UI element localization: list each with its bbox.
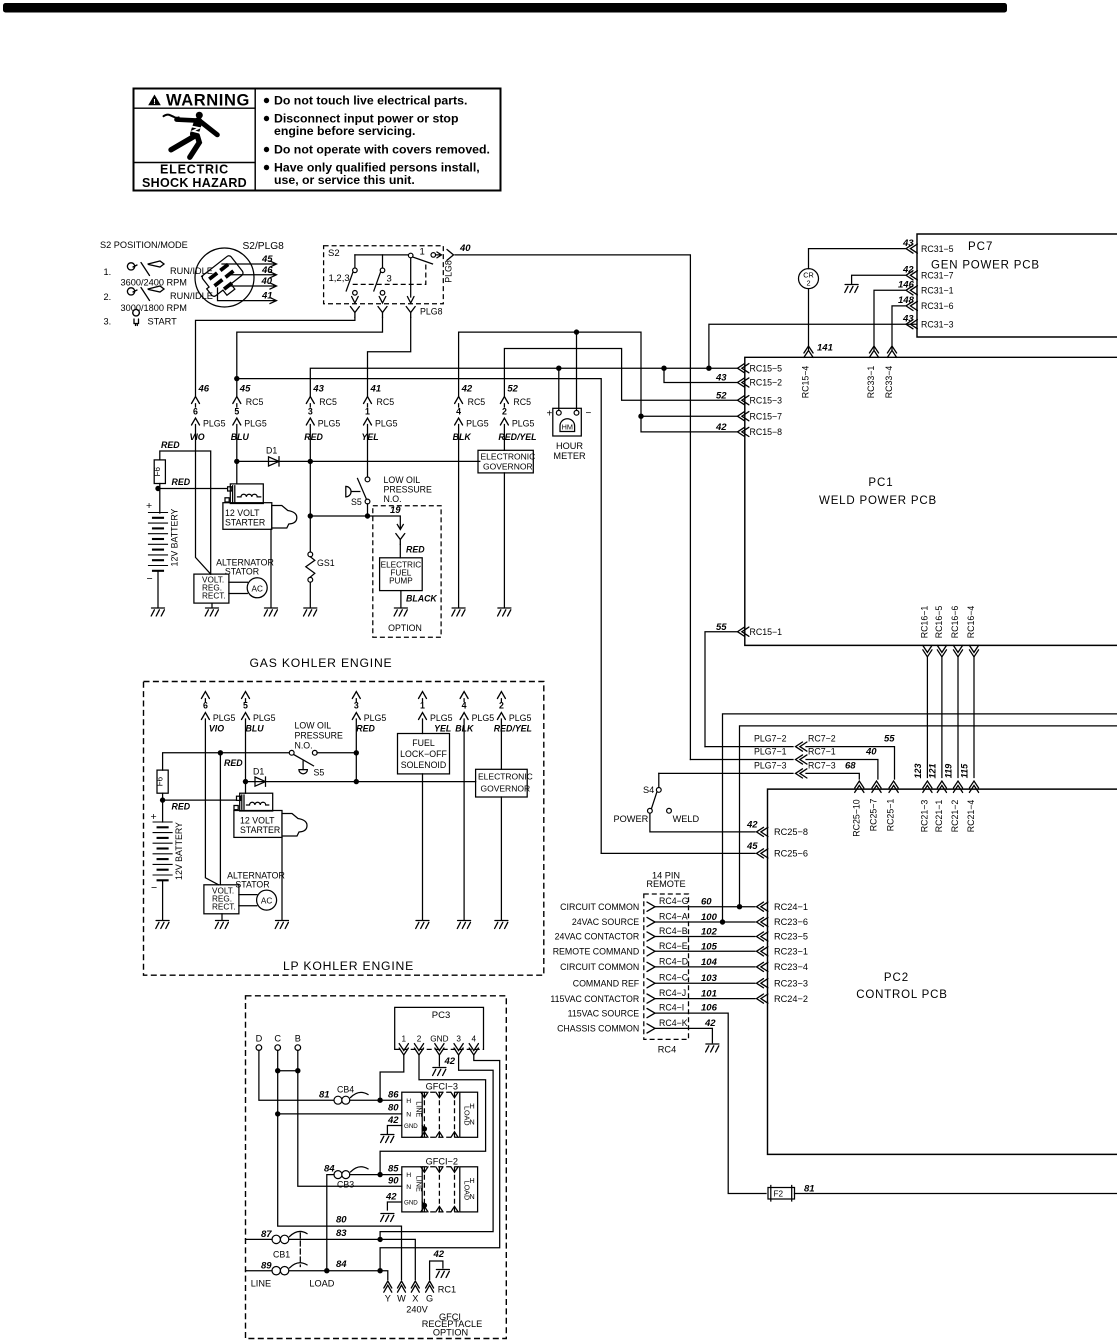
svg-text:S2/PLG8: S2/PLG8 bbox=[243, 241, 285, 252]
svg-text:PLG5: PLG5 bbox=[375, 419, 398, 429]
svg-text:RC24−2: RC24−2 bbox=[774, 994, 808, 1004]
svg-text:AC: AC bbox=[252, 584, 263, 593]
svg-text:LOCK−OFF: LOCK−OFF bbox=[400, 749, 447, 759]
pole 3 riser bbox=[382, 255, 384, 268]
connector RC31-3 bbox=[906, 320, 917, 329]
svg-text:HM: HM bbox=[562, 423, 573, 432]
ground RC31-7 bbox=[845, 285, 858, 293]
svg-text:PLG5: PLG5 bbox=[318, 419, 341, 429]
svg-text:RC16−6: RC16−6 bbox=[950, 606, 960, 639]
svg-text:−: − bbox=[147, 573, 153, 585]
volt reg rect (lp) bbox=[204, 885, 239, 914]
svg-text:GND: GND bbox=[430, 1035, 448, 1044]
svg-text:LINE: LINE bbox=[251, 1279, 271, 1289]
terminal Y bbox=[384, 1281, 392, 1292]
wire RC31-6 to RC33-4 bbox=[892, 306, 905, 350]
S2 top bus bbox=[355, 254, 409, 256]
svg-text:2: 2 bbox=[417, 1035, 422, 1044]
pin RC4−B row bbox=[647, 932, 655, 941]
gas BLK column to ground bbox=[458, 404, 460, 607]
gas kohler engine section bbox=[146, 384, 537, 671]
svg-text:PLG5: PLG5 bbox=[244, 419, 267, 429]
wire 83 CB1 to terminal X bbox=[289, 1239, 415, 1279]
svg-text:ELECTRIC: ELECTRIC bbox=[160, 163, 229, 177]
svg-text:RC25−10: RC25−10 bbox=[851, 799, 861, 837]
svg-text:RC16−1: RC16−1 bbox=[919, 606, 929, 639]
lp column 1 (YEL) PLG5 bbox=[419, 692, 427, 699]
svg-text:4: 4 bbox=[456, 407, 461, 417]
circuit breaker CB3 bbox=[334, 1167, 368, 1179]
svg-text:D1: D1 bbox=[253, 767, 264, 777]
svg-text:RC25−8: RC25−8 bbox=[774, 827, 808, 837]
lp column 3 (RED) PLG5 bbox=[352, 692, 360, 699]
svg-text:60: 60 bbox=[701, 897, 712, 908]
svg-text:42: 42 bbox=[387, 1115, 399, 1126]
svg-text:3600/2400 RPM: 3600/2400 RPM bbox=[121, 278, 187, 288]
fuel pump wire 19 bbox=[310, 516, 403, 530]
svg-text:ELECTRONIC: ELECTRONIC bbox=[478, 772, 533, 782]
fuel lock-off solenoid bbox=[398, 734, 450, 774]
PC3 box bbox=[395, 1007, 484, 1049]
svg-text:PC1: PC1 bbox=[868, 477, 893, 489]
pin RC4−D row bbox=[647, 962, 655, 971]
switch S5 low oil pressure (gas) bbox=[346, 486, 351, 497]
svg-text:RED: RED bbox=[224, 758, 243, 768]
lp volt reg to ground bbox=[221, 914, 223, 920]
GFCI receptacle option dashed box bbox=[246, 996, 507, 1339]
svg-text:STATOR: STATOR bbox=[225, 567, 259, 577]
hour meter right riser bbox=[576, 332, 578, 410]
lp YEL column bbox=[422, 699, 424, 920]
lp volt reg to AC links bbox=[239, 895, 257, 906]
svg-text:CIRCUIT COMMON: CIRCUIT COMMON bbox=[560, 902, 639, 912]
svg-text:87: 87 bbox=[261, 1229, 272, 1240]
connector RC15-1 bbox=[738, 627, 749, 636]
svg-text:+: + bbox=[547, 409, 553, 420]
svg-text:81: 81 bbox=[319, 1090, 330, 1101]
svg-text:RC5: RC5 bbox=[377, 397, 395, 407]
svg-text:42: 42 bbox=[385, 1191, 397, 1202]
connector RC25-7 bbox=[872, 781, 881, 792]
svg-text:PLG5: PLG5 bbox=[253, 713, 276, 723]
svg-text:RC21−2: RC21−2 bbox=[950, 800, 960, 833]
svg-text:BLACK: BLACK bbox=[406, 594, 437, 604]
svg-text:RC23−4: RC23−4 bbox=[774, 962, 808, 972]
PLG7-1 / RC7-1 row (wire 40) bbox=[690, 760, 878, 780]
battery (lp) bbox=[153, 822, 172, 880]
svg-text:VIO: VIO bbox=[190, 432, 205, 442]
ground lp BLK column bbox=[457, 921, 470, 929]
svg-text:43: 43 bbox=[902, 238, 914, 249]
svg-text:RED: RED bbox=[161, 440, 180, 450]
svg-text:RC31−6: RC31−6 bbox=[921, 301, 954, 311]
svg-text:START: START bbox=[148, 317, 178, 327]
svg-text:SOLENOID: SOLENOID bbox=[401, 760, 446, 770]
connector RC24−2 bbox=[757, 994, 768, 1003]
svg-text:RECT.: RECT. bbox=[202, 592, 226, 601]
svg-text:GND: GND bbox=[404, 1199, 418, 1206]
svg-text:3: 3 bbox=[387, 274, 392, 285]
lp column 6 (VIO) PLG5 bbox=[201, 692, 209, 699]
svg-text:84: 84 bbox=[324, 1164, 335, 1175]
svg-text:2.: 2. bbox=[104, 292, 112, 302]
ground lp RED/YEL column bbox=[495, 921, 508, 929]
PLG7-2 / RC7-2 row (wire 55) bbox=[705, 747, 895, 779]
svg-text:LOAD: LOAD bbox=[309, 1279, 334, 1289]
lp BLU column bbox=[245, 699, 247, 793]
svg-text:RC4−I: RC4−I bbox=[659, 1003, 684, 1013]
svg-text:3: 3 bbox=[308, 407, 313, 417]
volt reg to ground bbox=[211, 603, 213, 607]
connector pin stub arrows 45/46/40/41 bbox=[218, 261, 277, 304]
hour meter left riser bbox=[558, 368, 560, 410]
gas BLU column to starter solenoid bbox=[236, 404, 238, 484]
svg-text:42: 42 bbox=[461, 384, 473, 395]
svg-text:PLG5: PLG5 bbox=[509, 713, 532, 723]
wire 45: gas col5 branch to RC25-6 bbox=[237, 379, 601, 854]
svg-text:LINE: LINE bbox=[415, 1176, 424, 1192]
svg-text:RC21−3: RC21−3 bbox=[919, 800, 929, 833]
svg-text:N.O.: N.O. bbox=[384, 494, 402, 504]
wire D to CB4 bbox=[259, 1050, 333, 1100]
svg-text:PLG5: PLG5 bbox=[364, 713, 387, 723]
svg-text:RC24−1: RC24−1 bbox=[774, 902, 808, 912]
svg-text:H: H bbox=[406, 1172, 411, 1179]
ground battery gas bbox=[151, 608, 164, 616]
svg-text:C: C bbox=[274, 1034, 281, 1044]
svg-text:W: W bbox=[397, 1294, 406, 1304]
svg-text:115VAC CONTACTOR: 115VAC CONTACTOR bbox=[550, 994, 639, 1004]
wire F6 to volt reg rect bbox=[160, 451, 211, 574]
pin RC4−I row bbox=[647, 1009, 655, 1018]
svg-text:40: 40 bbox=[261, 276, 273, 287]
wire 43: gas col3 to RC15-5 bbox=[310, 368, 737, 396]
ground RC1 bbox=[436, 1270, 449, 1278]
ground gas RED/YEL column bbox=[498, 608, 511, 616]
svg-text:Do not touch live electrical p: Do not touch live electrical parts. bbox=[274, 94, 467, 108]
wire RC31-3 riser bbox=[709, 324, 917, 368]
svg-text:RC7−2: RC7−2 bbox=[808, 734, 836, 744]
wire 42 S4 to RC25-8 bbox=[650, 813, 755, 832]
svg-text:GND: GND bbox=[404, 1123, 418, 1130]
svg-text:RC5: RC5 bbox=[513, 397, 531, 407]
pin RC4−E row bbox=[647, 947, 655, 956]
svg-text:RC15−4: RC15−4 bbox=[801, 366, 811, 399]
wire RC15-7 branch bbox=[641, 415, 738, 417]
svg-text:46: 46 bbox=[261, 265, 273, 276]
wire RC31-7 to ground bbox=[852, 275, 905, 283]
svg-text:S2 POSITION/MODE: S2 POSITION/MODE bbox=[100, 240, 188, 250]
wire CB3 to 84 line bbox=[327, 1175, 334, 1271]
svg-text:PLG7−3: PLG7−3 bbox=[754, 760, 787, 770]
svg-text:106: 106 bbox=[701, 1003, 718, 1014]
svg-text:CB4: CB4 bbox=[337, 1085, 354, 1095]
svg-text:RC4−E: RC4−E bbox=[659, 941, 688, 951]
lp D1 wire to governor bbox=[246, 781, 476, 783]
svg-text:PC2: PC2 bbox=[884, 972, 909, 984]
gas RED/YEL column through governor bbox=[503, 404, 505, 607]
wire PC3 pin4 to 84 line bbox=[380, 1055, 500, 1271]
svg-text:N: N bbox=[406, 1184, 411, 1191]
connector RC15-5 bbox=[738, 364, 749, 373]
starter to ground bbox=[270, 529, 272, 607]
wire 84 CB1 to terminal Y bbox=[289, 1271, 388, 1280]
connector RC15-7 bbox=[738, 412, 749, 421]
svg-text:RED: RED bbox=[406, 545, 425, 555]
svg-text:42: 42 bbox=[746, 820, 758, 831]
S5 to fuel pump wire bbox=[367, 504, 369, 516]
svg-text:89: 89 bbox=[261, 1260, 272, 1271]
svg-text:GAS KOHLER ENGINE: GAS KOHLER ENGINE bbox=[250, 656, 393, 670]
svg-text:WELD POWER PCB: WELD POWER PCB bbox=[819, 495, 937, 507]
svg-text:2: 2 bbox=[502, 407, 507, 417]
svg-text:LOW OIL: LOW OIL bbox=[295, 721, 332, 731]
run/idle icons row 2 bbox=[127, 286, 164, 301]
svg-text:45: 45 bbox=[261, 254, 273, 265]
svg-text:PLG5: PLG5 bbox=[512, 419, 535, 429]
svg-text:RED: RED bbox=[356, 724, 375, 734]
hour meter HM bbox=[547, 408, 592, 461]
svg-text:RUN/IDLE: RUN/IDLE bbox=[170, 291, 213, 301]
connector RC23−4 bbox=[757, 962, 768, 971]
svg-text:42: 42 bbox=[715, 422, 727, 433]
lp wire S5 to RED column bbox=[317, 752, 356, 754]
svg-text:119: 119 bbox=[944, 764, 954, 778]
svg-text:RC1: RC1 bbox=[438, 1285, 456, 1295]
svg-text:80: 80 bbox=[388, 1103, 399, 1114]
svg-text:12 VOLT: 12 VOLT bbox=[225, 508, 260, 518]
svg-text:41: 41 bbox=[261, 290, 273, 301]
connector RC25-6 bbox=[757, 849, 768, 858]
ground RC4-K bbox=[706, 1044, 719, 1052]
svg-text:1: 1 bbox=[402, 1035, 407, 1044]
svg-text:N.O.: N.O. bbox=[295, 741, 313, 751]
svg-text:104: 104 bbox=[701, 957, 718, 968]
svg-text:3000/1800 RPM: 3000/1800 RPM bbox=[121, 303, 187, 313]
gas RED column bbox=[309, 404, 311, 552]
svg-text:103: 103 bbox=[701, 973, 718, 984]
svg-text:RC15−2: RC15−2 bbox=[750, 378, 783, 388]
svg-text:STATOR: STATOR bbox=[235, 880, 269, 890]
connector RC31-6 bbox=[906, 301, 917, 310]
svg-text:RC4−K: RC4−K bbox=[659, 1018, 688, 1028]
connector RC15-8 bbox=[738, 427, 749, 436]
S4 lever bbox=[652, 792, 657, 809]
gas option dashed box bbox=[373, 506, 441, 638]
svg-text:H: H bbox=[406, 1098, 411, 1105]
svg-text:RC5: RC5 bbox=[468, 397, 486, 407]
svg-text:146: 146 bbox=[898, 280, 915, 291]
svg-text:RC7−1: RC7−1 bbox=[808, 747, 836, 757]
svg-text:REMOTE: REMOTE bbox=[646, 879, 685, 889]
wire PLG8-3 to gas col 1 bbox=[368, 318, 411, 397]
ground GS1 bbox=[304, 608, 317, 616]
svg-text:COMMAND REF: COMMAND REF bbox=[573, 978, 640, 988]
svg-text:43: 43 bbox=[312, 384, 324, 395]
wire RC4-A riser to right edge bbox=[723, 714, 1117, 922]
top black title bar bbox=[3, 3, 1007, 13]
fuse F6 (lp) bbox=[157, 770, 168, 793]
keyed plug outline bbox=[199, 255, 249, 303]
connector RC31-1 bbox=[906, 286, 917, 295]
ground starter lp bbox=[275, 921, 288, 929]
12 volt starter (lp) bbox=[234, 793, 307, 837]
terminal G bbox=[426, 1281, 434, 1292]
svg-text:1: 1 bbox=[420, 247, 425, 258]
svg-text:42: 42 bbox=[704, 1018, 716, 1029]
gas D1 wire to governor bbox=[237, 460, 480, 462]
svg-text:D1: D1 bbox=[266, 446, 277, 456]
connector RC31-5 bbox=[906, 244, 917, 253]
svg-text:RC31−5: RC31−5 bbox=[921, 244, 954, 254]
svg-text:WARNING: WARNING bbox=[166, 92, 250, 110]
svg-text:BLK: BLK bbox=[453, 432, 472, 442]
svg-text:RED: RED bbox=[172, 802, 191, 812]
svg-text:RC16−4: RC16−4 bbox=[966, 606, 976, 639]
svg-text:RC4−G: RC4−G bbox=[659, 896, 689, 906]
svg-text:55: 55 bbox=[884, 734, 895, 745]
wire 40: S2 to PLG7-1 bbox=[455, 255, 690, 760]
GFCI−3 bbox=[387, 1082, 477, 1138]
svg-text:45: 45 bbox=[239, 384, 251, 395]
svg-text:PLG7−2: PLG7−2 bbox=[754, 734, 787, 744]
svg-text:40: 40 bbox=[865, 747, 877, 758]
circuit breaker CB4 bbox=[334, 1092, 368, 1104]
svg-text:RC33−1: RC33−1 bbox=[866, 366, 876, 399]
connector RC33-1 bbox=[869, 346, 878, 357]
svg-text:CB1: CB1 bbox=[273, 1250, 290, 1260]
svg-text:RC31−3: RC31−3 bbox=[921, 319, 954, 329]
gas VIO column to volt reg bbox=[196, 404, 211, 574]
svg-text:PLG5: PLG5 bbox=[430, 713, 453, 723]
svg-text:68: 68 bbox=[845, 760, 856, 771]
PC1 weld power pcb box bbox=[715, 343, 1117, 646]
fuel pump to ground bbox=[400, 591, 402, 608]
PC7 gen power pcb box bbox=[799, 234, 1117, 350]
svg-text:123: 123 bbox=[913, 763, 923, 778]
svg-text:PUMP: PUMP bbox=[389, 577, 413, 586]
svg-text:RC15−1: RC15−1 bbox=[750, 627, 783, 637]
pin RC4−J row bbox=[647, 994, 655, 1003]
start key icon bbox=[133, 309, 140, 325]
svg-text:12 VOLT: 12 VOLT bbox=[240, 816, 275, 826]
svg-text:LP KOHLER ENGINE: LP KOHLER ENGINE bbox=[283, 959, 414, 973]
ground lp YEL column bbox=[416, 921, 429, 929]
svg-text:RC23−3: RC23−3 bbox=[774, 978, 808, 988]
wire Y to fuel pump bbox=[399, 545, 401, 558]
wire 85 CB3 to GFCI-2 H bbox=[350, 1174, 402, 1176]
switch S4 power/weld bbox=[614, 773, 759, 832]
connector RC25-10 bbox=[855, 781, 864, 792]
svg-text:141: 141 bbox=[817, 343, 833, 354]
lp column 4 (BLK) PLG5 bbox=[460, 692, 468, 699]
circuit breaker CB1 bbox=[272, 1231, 307, 1274]
svg-text:1: 1 bbox=[365, 407, 370, 417]
switch S2 (dashed enclosure) bbox=[324, 243, 472, 318]
wire 42 RC4-K to ground bbox=[655, 1028, 712, 1042]
relay CR2 bbox=[799, 269, 819, 289]
svg-text:PC7: PC7 bbox=[968, 241, 993, 253]
svg-text:RC33−4: RC33−4 bbox=[884, 366, 894, 399]
svg-text:STARTER: STARTER bbox=[240, 825, 280, 835]
ground volt reg gas bbox=[205, 608, 218, 616]
electronic governor (gas) bbox=[478, 450, 533, 473]
svg-text:46: 46 bbox=[198, 384, 210, 395]
svg-text:LOAD: LOAD bbox=[463, 1181, 472, 1201]
battery to ground bbox=[157, 571, 159, 607]
wire 52: gas col2 to RC15-3 bbox=[504, 349, 737, 401]
svg-text:5: 5 bbox=[234, 407, 239, 417]
warning label box bbox=[134, 89, 501, 191]
svg-text:RED: RED bbox=[304, 432, 323, 442]
wire 45 to RC25-6 bbox=[601, 852, 755, 854]
ground GFCI-2 bbox=[381, 1214, 394, 1222]
14 pin remote connector RC4 bbox=[550, 871, 808, 1194]
pole 1,2,3 lever bbox=[346, 273, 353, 292]
svg-text:42: 42 bbox=[902, 265, 914, 276]
pole 1,2,3 riser bbox=[354, 255, 356, 268]
ground volt reg lp bbox=[215, 921, 228, 929]
wire G to RC1 ground bbox=[430, 1261, 443, 1280]
svg-text:12V BATTERY: 12V BATTERY bbox=[170, 508, 180, 566]
PC2 control pcb box bbox=[757, 781, 1117, 1154]
svg-text:24VAC CONTACTOR: 24VAC CONTACTOR bbox=[555, 932, 640, 942]
svg-text:RC23−6: RC23−6 bbox=[774, 917, 808, 927]
svg-text:Do not operate with covers rem: Do not operate with covers removed. bbox=[274, 143, 490, 157]
svg-text:105: 105 bbox=[701, 941, 718, 952]
svg-text:CONTROL PCB: CONTROL PCB bbox=[856, 989, 947, 1001]
terminal X bbox=[411, 1281, 419, 1292]
svg-text:F6: F6 bbox=[153, 466, 162, 476]
svg-text:D: D bbox=[256, 1034, 263, 1044]
connector RC15-3 bbox=[738, 396, 749, 405]
svg-text:40: 40 bbox=[459, 243, 471, 254]
connector RC23−1 bbox=[757, 947, 768, 956]
svg-text:RC25−1: RC25−1 bbox=[886, 799, 896, 832]
svg-text:F6: F6 bbox=[156, 776, 165, 786]
svg-text:X: X bbox=[412, 1294, 418, 1304]
svg-text:PLG8: PLG8 bbox=[444, 260, 454, 283]
svg-text:RC15−7: RC15−7 bbox=[750, 411, 783, 421]
svg-text:121: 121 bbox=[927, 763, 937, 778]
svg-text:PLG7−1: PLG7−1 bbox=[754, 747, 787, 757]
pin RC4−A row bbox=[647, 917, 655, 926]
svg-text:G: G bbox=[426, 1294, 433, 1304]
svg-text:GS1: GS1 bbox=[317, 558, 335, 568]
lp F6 to battery bbox=[162, 793, 164, 822]
ground gas BLK column bbox=[452, 608, 465, 616]
svg-text:CB3: CB3 bbox=[337, 1180, 354, 1190]
svg-text:N: N bbox=[406, 1112, 411, 1119]
wire CR2 to RC15-4 bbox=[808, 289, 810, 350]
svg-text:RC7−3: RC7−3 bbox=[808, 760, 836, 770]
wire 80: C column to GFCI-3 N bbox=[278, 1113, 402, 1115]
svg-text:LOAD: LOAD bbox=[463, 1106, 472, 1126]
wire PLG8-2 to gas col 5 bbox=[237, 318, 383, 397]
svg-text:RC23−1: RC23−1 bbox=[774, 947, 808, 957]
S2 position/mode legend bbox=[100, 240, 213, 327]
svg-text:RC21−4: RC21−4 bbox=[966, 800, 976, 833]
wire C / 80 to terminal W bbox=[278, 1050, 402, 1279]
lp column 5 (BLU) PLG5 bbox=[242, 692, 250, 699]
svg-text:OPTION: OPTION bbox=[388, 623, 422, 633]
gas YEL column to S5 bbox=[367, 404, 369, 477]
svg-text:−: − bbox=[586, 408, 592, 419]
svg-text:S5: S5 bbox=[351, 497, 362, 507]
svg-text:RED: RED bbox=[172, 477, 191, 487]
12 volt starter (gas) bbox=[223, 484, 297, 529]
svg-text:S4: S4 bbox=[643, 785, 654, 795]
